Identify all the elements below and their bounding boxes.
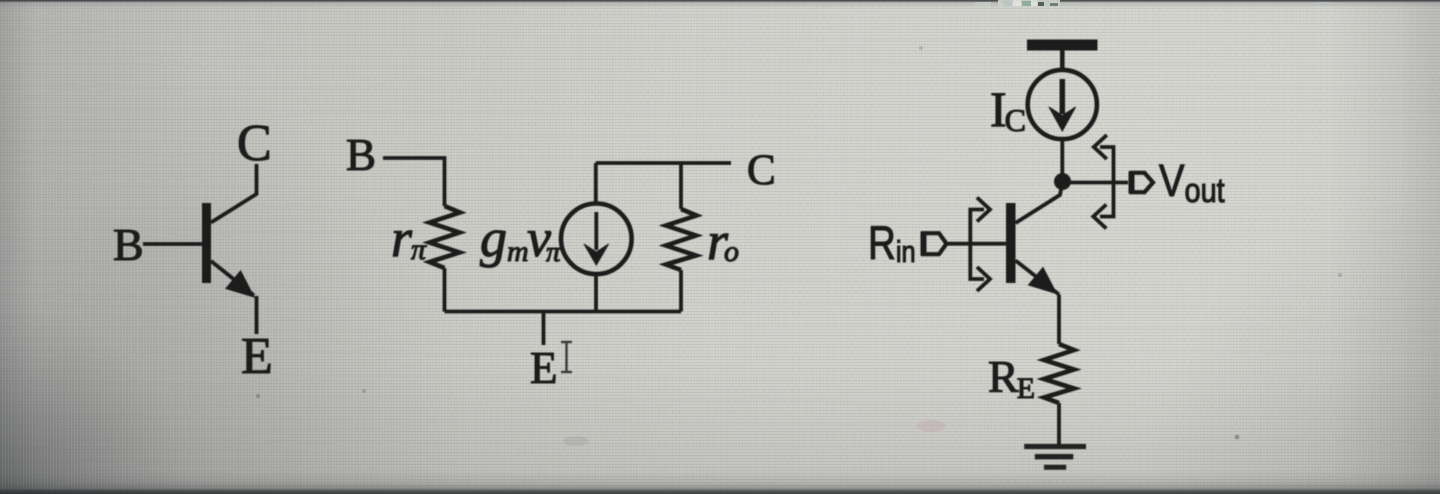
faint smudges	[563, 436, 589, 446]
port V_out symbol	[1132, 173, 1154, 192]
wire top rail to C	[596, 161, 731, 165]
wire r_o bottom	[679, 270, 683, 312]
wire B to r_pi	[383, 158, 445, 206]
node E stub	[542, 312, 546, 346]
wire node to collector	[1016, 183, 1063, 223]
wire base B	[143, 242, 202, 246]
text cursor artifact	[561, 342, 572, 372]
current source IC circle	[1028, 70, 1097, 139]
wire R_E to ground	[1057, 403, 1061, 444]
wire emitter to E	[255, 296, 259, 334]
wire base	[948, 242, 1006, 246]
annotation arrow vout bottom	[1093, 205, 1106, 229]
transistor Q2 base bar	[1006, 203, 1016, 283]
wire node to Vout port	[1063, 181, 1129, 185]
svg-text:E: E	[530, 343, 558, 393]
transistor Q1 base bar	[202, 203, 211, 283]
wire source bottom	[594, 274, 598, 312]
annotation arrow base bottom	[977, 267, 990, 291]
svg-text:E: E	[241, 328, 273, 385]
annotation arrow base top	[970, 210, 984, 280]
wire r_o top	[679, 163, 683, 209]
resistor r_o	[666, 209, 697, 270]
wire collector	[211, 164, 257, 223]
wire emitter diagonal	[1016, 261, 1060, 295]
port R_in symbol	[924, 233, 947, 254]
wire source to node	[1060, 139, 1064, 183]
artifact strip top	[975, 0, 1330, 7]
node collector dot	[1054, 173, 1071, 190]
annotation arrow vout top	[1100, 147, 1114, 217]
wire bottom rail	[445, 310, 682, 314]
current source IC arrow	[1060, 79, 1066, 114]
wire source top	[594, 163, 598, 204]
wire r_pi bottom	[443, 268, 447, 312]
svg-text:C: C	[237, 115, 272, 172]
wire supply to source	[1060, 50, 1065, 70]
current source G1 arrow	[594, 212, 598, 250]
current source G1 circle	[561, 204, 632, 275]
ground symbol	[1024, 447, 1086, 468]
svg-text:B: B	[113, 219, 144, 270]
resistor R_E	[1044, 344, 1074, 403]
resistor r_pi	[430, 206, 461, 268]
svg-text:B: B	[346, 130, 376, 180]
power supply bar	[1027, 40, 1098, 51]
transistor Q2 emitter arrow	[1029, 268, 1057, 294]
svg-text:C: C	[747, 147, 776, 194]
wire emitter diagonal	[211, 261, 254, 296]
wire emitter to R_E	[1057, 295, 1061, 345]
transistor Q1 emitter arrow	[226, 271, 254, 297]
